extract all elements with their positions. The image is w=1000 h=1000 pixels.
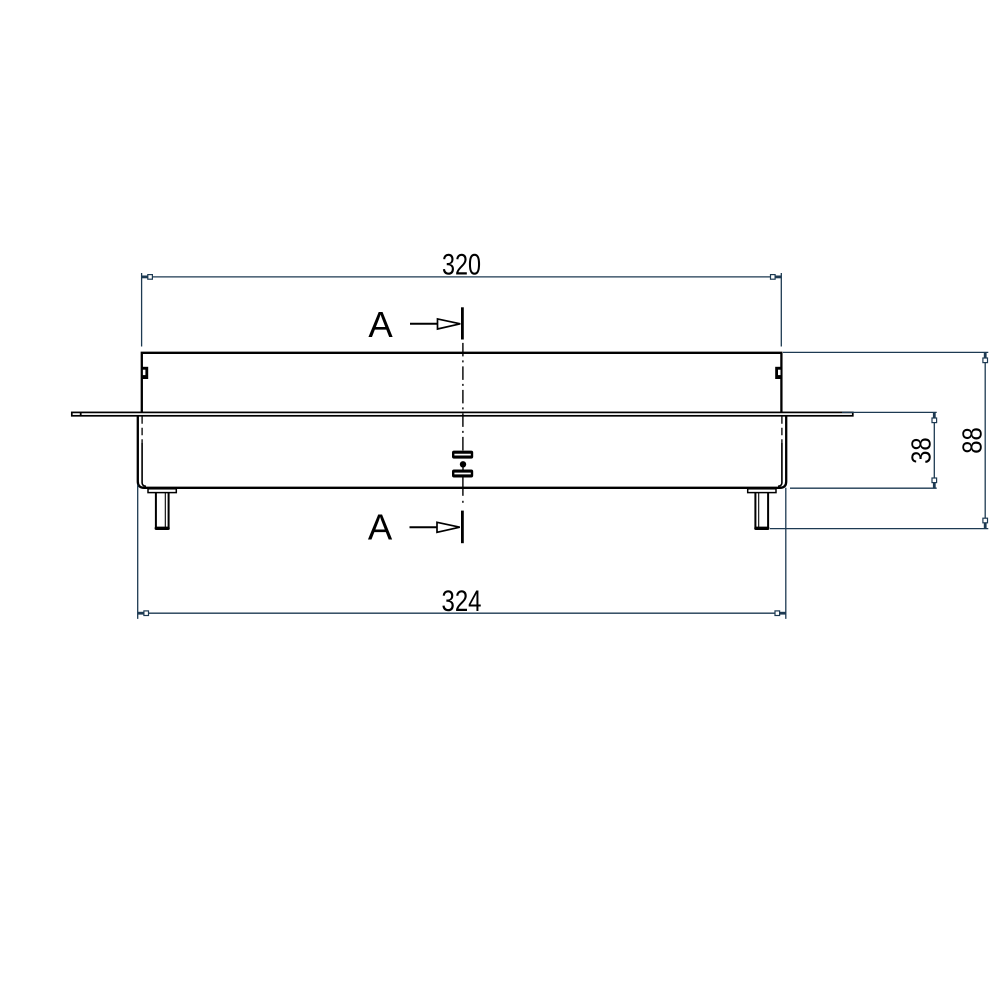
dimension 320 line [142, 276, 782, 278]
section arrow top [410, 323, 438, 325]
leg right shaft [754, 493, 756, 528]
dimension 38 line [933, 412, 935, 488]
fastener dot [460, 461, 466, 467]
dimension 88 extension line bottom [770, 528, 988, 530]
fastener knob upper [452, 451, 473, 459]
dimension 324 terminator left [138, 612, 144, 615]
body upper box outline [142, 353, 782, 413]
dimension 38 extension line bottom [790, 487, 937, 489]
leg right foot [754, 527, 769, 530]
dimension 38 terminator top [933, 412, 936, 418]
leg left mounting plate [148, 489, 176, 493]
leg left foot [155, 527, 170, 530]
leg right mounting plate [748, 489, 776, 493]
dimension 324 extension line right [785, 488, 787, 619]
clip tab right [775, 367, 781, 379]
fastener knob lower [452, 470, 473, 478]
lower box inner wall right (hidden) [781, 416, 783, 443]
dimension 320 terminator left [142, 275, 148, 278]
section cut line top [461, 307, 464, 339]
svg-text:A: A [368, 304, 393, 345]
clip tab left [142, 367, 148, 379]
svg-text:88: 88 [956, 427, 987, 454]
dimension 88 extension line top [783, 351, 988, 353]
dimension 88 terminator top [984, 352, 987, 358]
dimension 38 terminator bottom [933, 482, 936, 488]
svg-text:324: 324 [442, 585, 482, 618]
lower box inner wall right [778, 443, 782, 486]
leg left shaft [155, 493, 157, 528]
dimension 38 extension line top [842, 411, 937, 413]
dimension 88 line [984, 352, 986, 528]
section arrow bottom [410, 526, 438, 528]
dimension 324 terminator right [779, 612, 785, 615]
centerline lower [462, 478, 464, 496]
lower box inner wall left (hidden) [141, 416, 143, 443]
dimension 324 extension line left [137, 485, 139, 619]
dimension 320 extension line right [780, 273, 782, 347]
svg-text:38: 38 [905, 437, 936, 464]
svg-text:A: A [368, 507, 393, 548]
dimension 320 extension line left [141, 273, 143, 347]
dimension 88 terminator bottom [984, 523, 987, 529]
flange seam tick [80, 412, 82, 416]
lower box inner wall left [142, 443, 146, 486]
flange plate [72, 412, 853, 415]
section cut line bottom [461, 511, 464, 544]
body lower box outline [138, 416, 786, 488]
svg-text:320: 320 [442, 248, 481, 281]
dimension 324 line [138, 612, 786, 614]
centerline upper [462, 343, 464, 451]
dimension 320 terminator right [775, 275, 781, 278]
